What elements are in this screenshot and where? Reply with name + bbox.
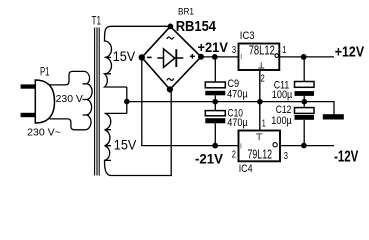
svg-text:470µ: 470µ bbox=[227, 117, 248, 129]
transformer T1 secondary lower winding bbox=[105, 113, 172, 175]
bridge minus mark bbox=[147, 56, 152, 58]
node bridge bottom bbox=[167, 86, 173, 92]
regulator IC3 bbox=[232, 30, 287, 85]
wire plug to primary bottom bbox=[50, 119, 85, 130]
wire bridge left corner down to -21V rail bbox=[142, 57, 239, 145]
node C11-C12 junction bbox=[302, 99, 308, 105]
svg-text:230 V: 230 V bbox=[56, 94, 84, 105]
capacitor C11 bbox=[272, 57, 314, 102]
wire top rail to bridge bbox=[111, 25, 170, 27]
wire bridge bottom corner down to bottom rail bbox=[170, 90, 172, 176]
wire IC3 pin2 / IC4 pin1 vertical bbox=[259, 70, 261, 131]
node bridge left bbox=[139, 54, 145, 60]
svg-text:T1: T1 bbox=[92, 15, 102, 27]
svg-text:IC4: IC4 bbox=[239, 163, 253, 175]
wire IC4 output bbox=[280, 145, 334, 147]
capacitor C10 bbox=[205, 102, 248, 146]
bridge tilde top bbox=[167, 37, 174, 39]
svg-text:RB154: RB154 bbox=[176, 19, 216, 35]
svg-text:1: 1 bbox=[262, 118, 266, 129]
ground bbox=[323, 114, 344, 119]
svg-text:78L12: 78L12 bbox=[249, 42, 275, 57]
svg-text:-12V: -12V bbox=[334, 149, 359, 166]
svg-text:100µ: 100µ bbox=[271, 115, 292, 127]
wire +21V rail bbox=[201, 56, 239, 58]
svg-text:470µ: 470µ bbox=[227, 89, 248, 101]
svg-text:3: 3 bbox=[232, 45, 237, 56]
plug P1 bbox=[21, 67, 55, 123]
capacitor C9 bbox=[205, 57, 248, 102]
transformer T1 secondary upper winding bbox=[105, 26, 127, 87]
wire center tap vertical bbox=[126, 87, 128, 113]
node C11 tap bbox=[301, 54, 307, 60]
svg-text:+12V: +12V bbox=[335, 43, 364, 60]
svg-text:100µ: 100µ bbox=[272, 89, 293, 101]
svg-text:BR1: BR1 bbox=[178, 7, 194, 18]
capacitor C12 bbox=[271, 102, 314, 146]
transformer T1 primary winding bbox=[83, 71, 93, 129]
svg-text:3: 3 bbox=[284, 151, 289, 162]
node regulators 0V junction bbox=[257, 99, 263, 105]
bridge plus mark bbox=[190, 54, 195, 59]
svg-text:15V: 15V bbox=[114, 138, 137, 154]
svg-text:79L12: 79L12 bbox=[248, 146, 273, 161]
svg-text:IC3: IC3 bbox=[240, 30, 255, 42]
bridge rectifier BR1 diamond bbox=[142, 26, 201, 89]
node C12 tap bbox=[301, 143, 307, 149]
svg-text:P1: P1 bbox=[40, 67, 50, 79]
wire 0V rail bbox=[127, 102, 334, 115]
svg-text:-21V: -21V bbox=[195, 152, 224, 167]
node center tap bbox=[124, 99, 130, 105]
node bridge right bbox=[198, 54, 204, 60]
svg-text:2: 2 bbox=[260, 73, 265, 84]
node bridge top bbox=[168, 24, 174, 30]
node C9-C10 junction bbox=[212, 99, 218, 105]
bridge diode symbol bbox=[157, 49, 183, 68]
svg-text:+21V: +21V bbox=[198, 40, 229, 55]
svg-text:230 V~: 230 V~ bbox=[27, 128, 61, 139]
bridge tilde bottom bbox=[167, 78, 174, 80]
node C9 tap bbox=[212, 54, 218, 60]
transformer T1 core bbox=[95, 28, 100, 176]
regulator IC4 bbox=[232, 118, 289, 175]
wire IC3 output bbox=[279, 56, 334, 58]
node C10 tap bbox=[212, 143, 218, 149]
svg-text:2: 2 bbox=[232, 150, 237, 161]
svg-text:1: 1 bbox=[282, 45, 287, 56]
wire plug to primary top bbox=[49, 71, 85, 85]
svg-text:15V: 15V bbox=[113, 49, 136, 65]
